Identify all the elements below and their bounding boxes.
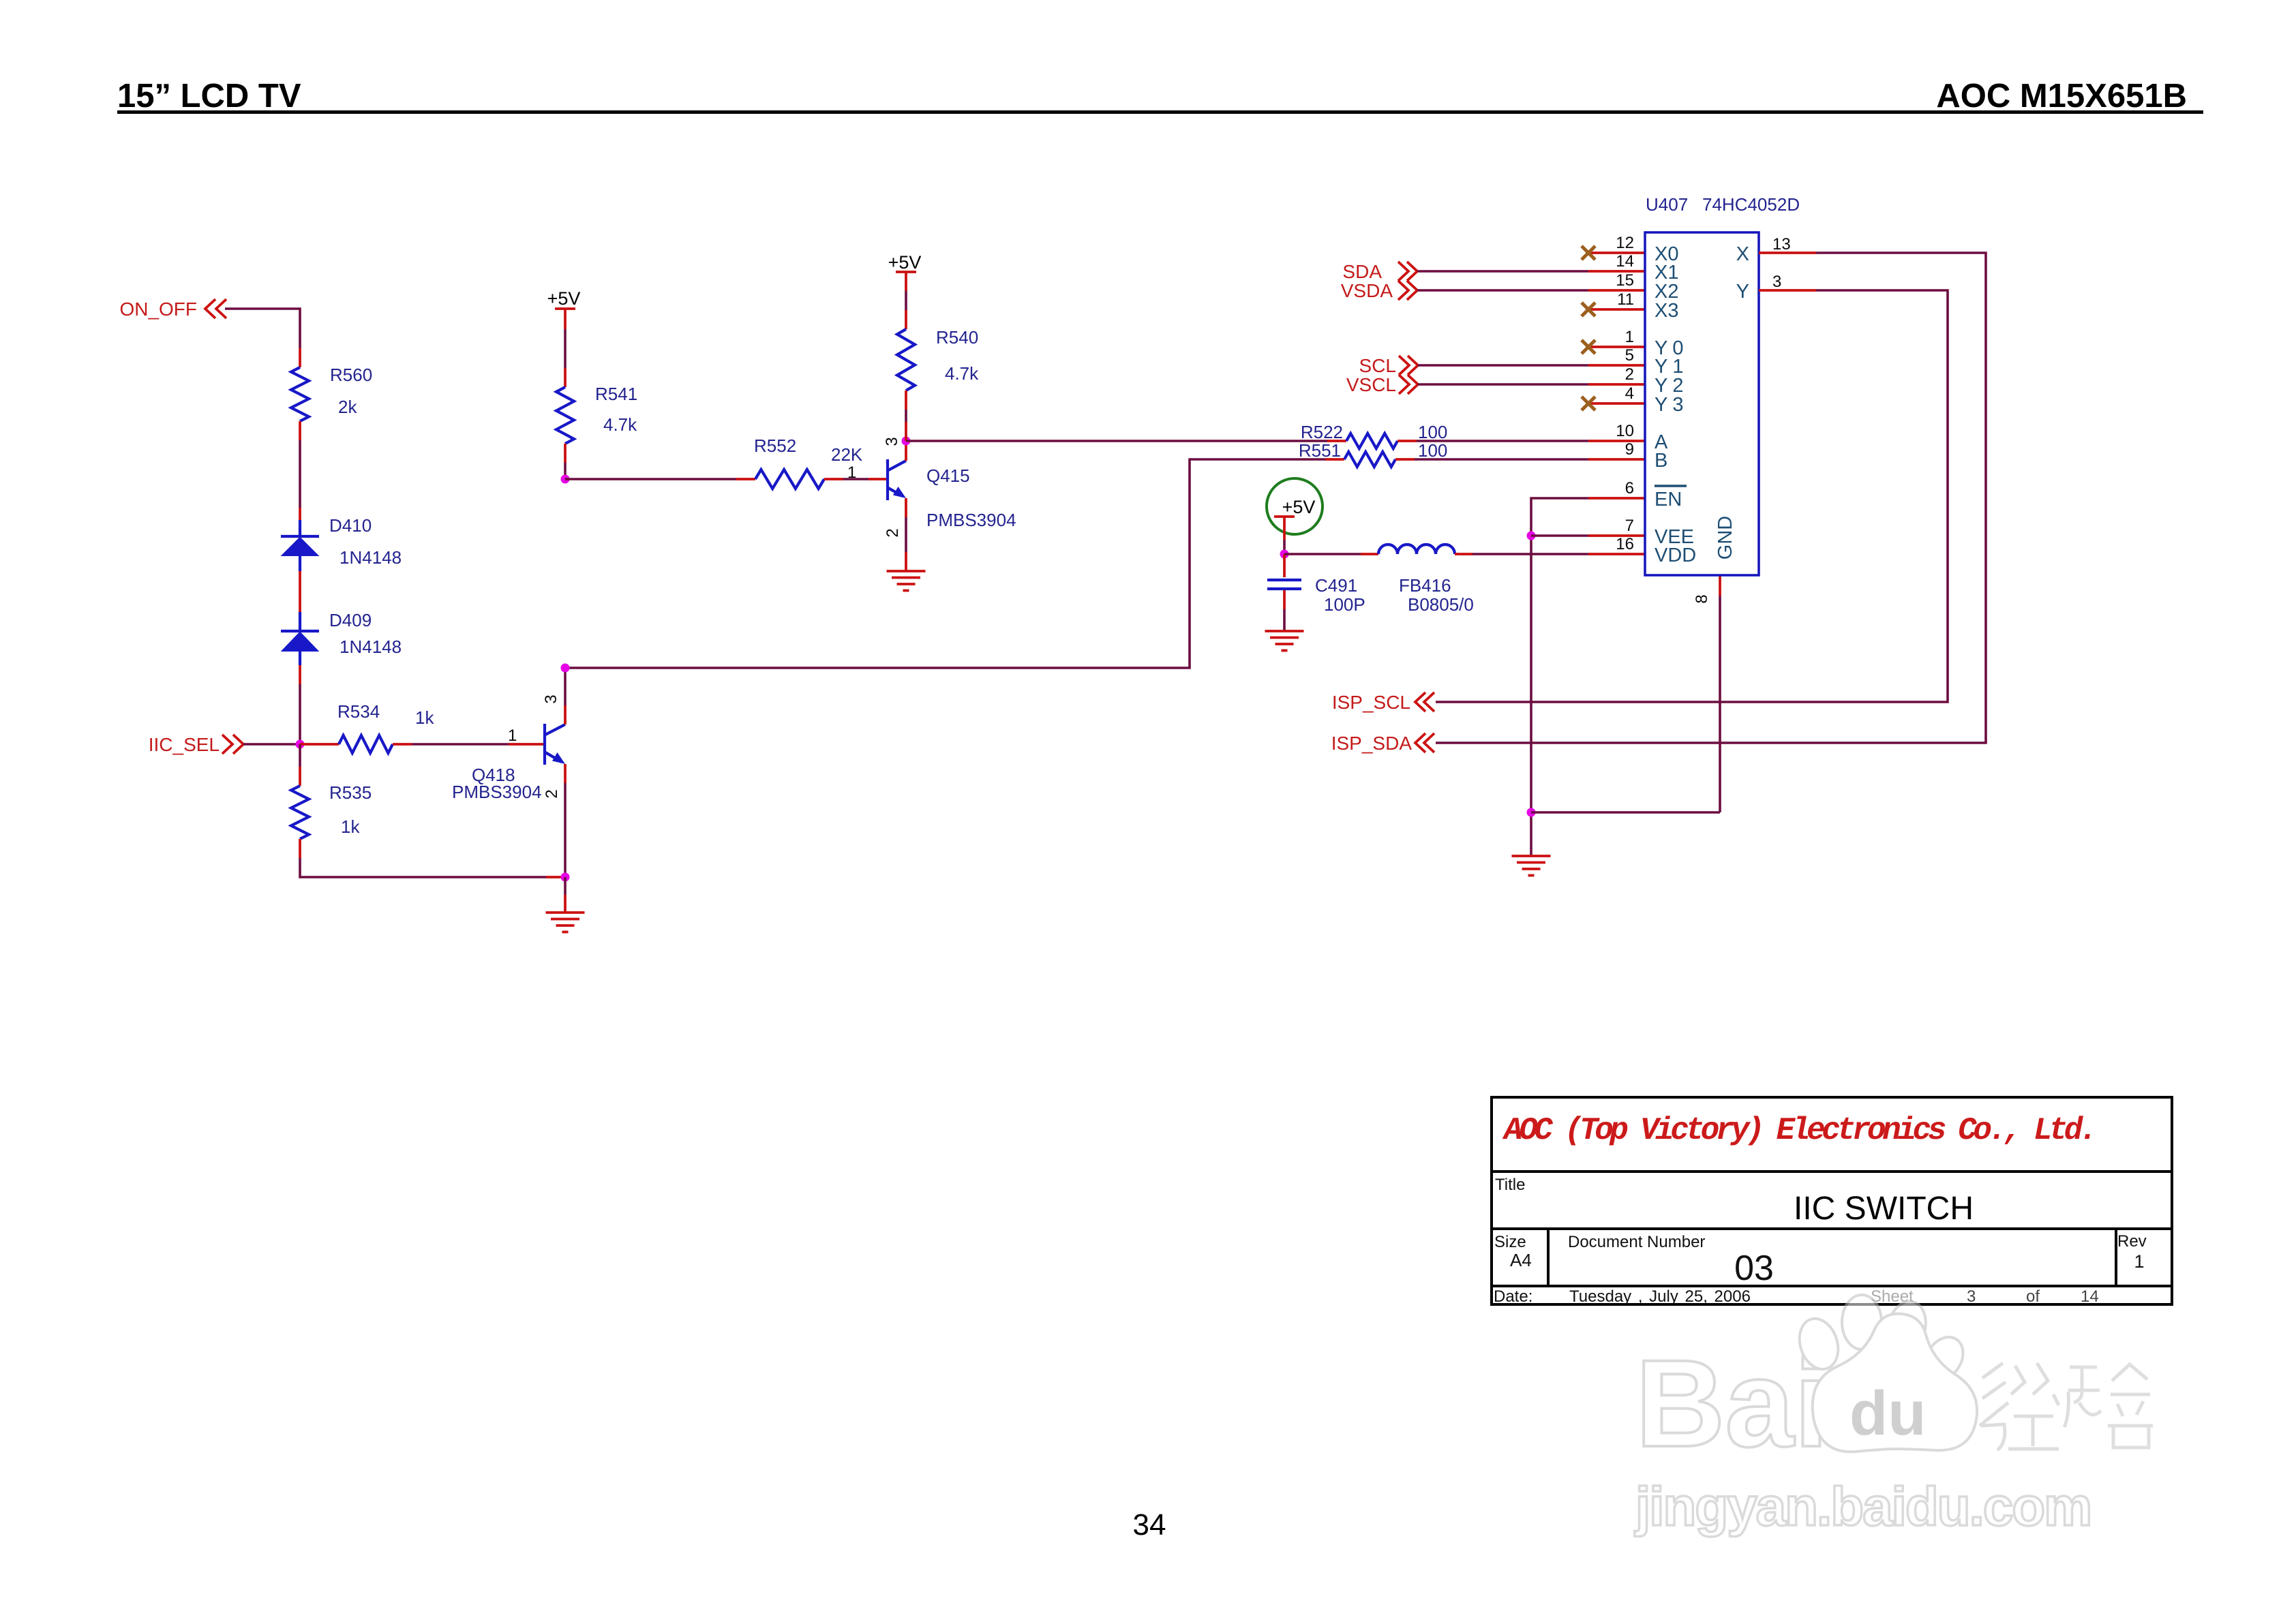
U407 pin 14 X1 <box>1616 252 1678 284</box>
svg-text:VDD: VDD <box>1655 545 1696 566</box>
node Q418 emitter junction <box>561 873 570 882</box>
resistor R540 4.7k <box>897 327 979 391</box>
resistor R535 1k <box>291 782 372 839</box>
svg-text:Tuesday , July 25, 2006: Tuesday , July 25, 2006 <box>1569 1287 1751 1306</box>
wire R540 to collector node <box>905 391 907 441</box>
svg-text:ISP_SCL: ISP_SCL <box>1332 692 1410 713</box>
wire GND pin 8 <box>1531 575 1720 812</box>
svg-text:U407: U407 <box>1646 194 1688 215</box>
wire R552 to Q415 base <box>824 478 886 480</box>
U407 pin 4 Y3 <box>1625 384 1689 416</box>
net label ON_OFF <box>119 299 226 320</box>
svg-text:FB416: FB416 <box>1399 575 1451 596</box>
wire D410 to D409 <box>299 571 301 612</box>
node R541 bottom junction <box>561 475 570 484</box>
svg-text:EN: EN <box>1655 489 1682 510</box>
svg-text:R541: R541 <box>595 384 637 404</box>
svg-text:Rev: Rev <box>2117 1232 2147 1251</box>
wire junction to R552 <box>565 478 755 480</box>
svg-text:2k: 2k <box>338 397 357 417</box>
svg-text:Bai: Bai <box>1635 1334 1828 1473</box>
no-connect X pin 1 <box>1582 340 1645 354</box>
net label VSDA <box>1341 280 1417 301</box>
svg-text:5: 5 <box>1625 346 1634 365</box>
wire VEE <box>1531 534 1645 537</box>
svg-text:D409: D409 <box>329 610 372 630</box>
net label ISP_SCL <box>1332 692 1434 713</box>
svg-text:B0805/0: B0805/0 <box>1408 594 1474 615</box>
wire Q415 emitter to ground <box>905 498 907 571</box>
wire +5V circle to VDD node <box>1283 540 1286 554</box>
header underline <box>117 110 2203 114</box>
U407 pin 12 X0 <box>1616 234 1678 265</box>
svg-text:1k: 1k <box>341 816 360 837</box>
no-connect X pin 11 <box>1582 303 1645 316</box>
svg-text:2: 2 <box>883 528 902 537</box>
svg-text:74HC4052D: 74HC4052D <box>1702 194 1800 215</box>
svg-text:1: 1 <box>847 463 856 482</box>
wire collector node to R522 <box>906 440 1346 442</box>
svg-text:100: 100 <box>1418 422 1447 442</box>
svg-text:SCL: SCL <box>1359 355 1396 376</box>
ground (EN/VEE rail) <box>1512 855 1551 857</box>
svg-text:3: 3 <box>883 437 901 446</box>
power +5V (above R541) <box>547 288 581 329</box>
U407 pin 13 X output <box>1736 235 1816 265</box>
svg-text:A4: A4 <box>1510 1250 1532 1270</box>
wire R534 to Q418 base <box>393 743 543 746</box>
svg-text:1N4148: 1N4148 <box>339 547 402 568</box>
svg-text:22K: 22K <box>831 444 863 465</box>
U407 pin 9 B <box>1625 440 1668 472</box>
svg-text:15: 15 <box>1616 271 1634 290</box>
resistor R541 4.7k <box>556 384 637 444</box>
svg-text:R551: R551 <box>1299 440 1341 461</box>
svg-text:VSDA: VSDA <box>1341 280 1393 301</box>
node VEE junction <box>1527 532 1536 540</box>
U407 pin 6 EN <box>1625 479 1687 510</box>
svg-text:of: of <box>2026 1287 2040 1306</box>
svg-text:4.7k: 4.7k <box>945 363 979 384</box>
transistor Q418 PMBS3904 <box>452 724 565 802</box>
svg-text:3: 3 <box>1967 1287 1976 1306</box>
wire D409 to IIC_SEL node <box>299 665 301 744</box>
power +5V circle <box>1267 478 1323 540</box>
svg-text:R535: R535 <box>329 782 372 803</box>
svg-text:2: 2 <box>543 789 561 798</box>
op-amp/mux U407 74HC4052D body <box>1645 194 1800 575</box>
svg-text:15” LCD TV: 15” LCD TV <box>117 78 301 114</box>
svg-text:Y3: Y3 <box>1655 394 1688 416</box>
wire Q418 collector up <box>564 668 567 724</box>
U407 pin 16 VDD <box>1616 535 1696 566</box>
svg-text:1k: 1k <box>415 707 434 728</box>
net label SCL <box>1359 355 1418 376</box>
ground (Q415 emitter) <box>887 570 926 572</box>
svg-text:Y: Y <box>1736 281 1749 303</box>
wire EN corner down rail <box>1531 498 1645 856</box>
resistor R560 <box>291 365 372 421</box>
svg-text:R560: R560 <box>330 365 372 385</box>
svg-text:VSCL: VSCL <box>1346 374 1396 395</box>
svg-text:R534: R534 <box>337 701 380 722</box>
node R541 lower junction <box>561 664 570 673</box>
svg-text:3: 3 <box>1772 273 1781 291</box>
wire R560 to D410 <box>299 421 301 520</box>
no-connect X pin 12 <box>1582 246 1645 260</box>
svg-text:Title: Title <box>1495 1176 1525 1194</box>
ground (C491) <box>1265 630 1304 632</box>
wire Q418 emitter down <box>564 764 567 877</box>
svg-text:jingyan.baidu.com: jingyan.baidu.com <box>1634 1476 2091 1537</box>
svg-text:2: 2 <box>1625 365 1634 384</box>
svg-text:14: 14 <box>2081 1287 2099 1306</box>
U407 pin 3 Y output <box>1736 273 1816 303</box>
svg-text:Date:: Date: <box>1494 1287 1532 1306</box>
wire C491 to ground <box>1283 590 1286 631</box>
U407 pin 11 X3 <box>1617 290 1678 322</box>
svg-text:14: 14 <box>1616 252 1634 271</box>
power +5V (above R540) <box>888 252 922 291</box>
node Q415 collector junction <box>902 437 911 446</box>
svg-text:X3: X3 <box>1655 300 1678 322</box>
wire node to C491 <box>1283 554 1286 577</box>
svg-text:IIC SWITCH: IIC SWITCH <box>1794 1191 1974 1227</box>
wire junction to ground <box>564 877 567 913</box>
svg-text:+5V: +5V <box>888 252 922 273</box>
svg-text:ON_OFF: ON_OFF <box>119 299 197 320</box>
wire node to R534 <box>300 743 339 746</box>
wire SCL to Y1 <box>1418 364 1645 367</box>
svg-text:3: 3 <box>542 694 560 703</box>
wire FB416 to pin VDD <box>1455 553 1645 555</box>
wire Q415 collector up <box>905 441 907 461</box>
svg-text:03: 03 <box>1734 1249 1774 1288</box>
svg-text:IIC_SEL: IIC_SEL <box>149 734 220 755</box>
svg-text:D410: D410 <box>329 515 372 536</box>
svg-text:1: 1 <box>1625 328 1634 346</box>
svg-text:1: 1 <box>2134 1251 2144 1272</box>
svg-text:AOC (Top Victory) Electronics: AOC (Top Victory) Electronics Co., Ltd. <box>1502 1113 2094 1148</box>
wire R522 to pin A <box>1398 440 1645 442</box>
U407 pin 15 X2 <box>1616 271 1678 303</box>
no-connect X pin 4 <box>1582 397 1645 410</box>
svg-text:9: 9 <box>1625 440 1634 459</box>
svg-text:SDA: SDA <box>1342 261 1382 282</box>
net label SDA <box>1342 261 1417 282</box>
svg-text:34: 34 <box>1133 1508 1166 1542</box>
svg-text:Document Number: Document Number <box>1568 1233 1705 1251</box>
svg-text:C491: C491 <box>1315 575 1357 596</box>
svg-text:Q415: Q415 <box>926 465 970 486</box>
wire ON_OFF to R560 <box>225 309 300 367</box>
wire VSCL to Y2 <box>1418 383 1645 386</box>
U407 pin 10 A <box>1616 422 1668 453</box>
svg-text:+5V: +5V <box>547 288 581 309</box>
svg-text:12: 12 <box>1616 234 1634 252</box>
diode D409 1N4148 <box>281 610 402 665</box>
svg-text:100: 100 <box>1418 440 1447 461</box>
svg-text:Size: Size <box>1494 1233 1526 1251</box>
svg-text:1N4148: 1N4148 <box>339 637 402 657</box>
svg-text:PMBS3904: PMBS3904 <box>926 510 1016 530</box>
title block frame <box>1492 1097 2172 1304</box>
svg-text:B: B <box>1655 450 1667 472</box>
resistor R522 100 <box>1301 422 1448 448</box>
svg-text:4: 4 <box>1625 384 1634 403</box>
resistor R534 1k <box>337 701 434 753</box>
resistor R552 22K <box>754 435 863 489</box>
U407 pin 2 Y2 <box>1625 365 1689 397</box>
svg-text:du: du <box>1849 1379 1926 1448</box>
U407 pin 1 Y0 <box>1625 328 1689 359</box>
wire R541 to junction <box>564 444 567 479</box>
watermark baidu jingyan <box>1634 1295 2153 1537</box>
svg-text:PMBS3904: PMBS3904 <box>452 782 542 802</box>
wire +5V to R540 <box>905 291 907 329</box>
inductor FB416 B0805/0 <box>1378 545 1474 615</box>
resistor R551 100 <box>1299 440 1448 467</box>
svg-text:AOC M15X651B: AOC M15X651B <box>1936 78 2187 114</box>
svg-text:10: 10 <box>1616 422 1634 440</box>
net label VSCL <box>1346 374 1418 395</box>
svg-text:100P: 100P <box>1324 594 1365 615</box>
node IIC_SEL junction <box>296 740 305 749</box>
date row <box>1494 1287 2099 1306</box>
wire R551 to pin B <box>1395 458 1645 461</box>
wire +5V to R541 <box>564 329 567 387</box>
svg-text:R540: R540 <box>936 327 978 348</box>
svg-text:11: 11 <box>1617 290 1634 309</box>
U407 pin 5 Y1 <box>1625 346 1689 378</box>
ground (Q418 emitter) <box>546 911 585 914</box>
svg-text:+5V: +5V <box>1282 497 1316 517</box>
svg-text:R552: R552 <box>754 435 796 456</box>
svg-text:R522: R522 <box>1301 422 1343 442</box>
svg-text:4.7k: 4.7k <box>603 414 637 435</box>
wire IIC_SEL to node <box>243 743 300 746</box>
svg-text:13: 13 <box>1772 235 1791 254</box>
wire node down to R535 <box>299 744 301 786</box>
wire X pin13 loop to ISP_SDA <box>1436 253 1986 743</box>
wire emitter rail to R551 <box>565 459 1344 668</box>
net label IIC_SEL <box>149 734 243 755</box>
net label ISP_SDA <box>1331 733 1434 754</box>
wire SDA to X1 <box>1417 270 1645 273</box>
svg-text:6: 6 <box>1625 479 1634 498</box>
wire R535 to emitter rail <box>300 839 565 877</box>
U407 pin 7 VEE <box>1625 517 1694 548</box>
svg-text:ISP_SDA: ISP_SDA <box>1331 733 1413 754</box>
transistor Q415 PMBS3904 <box>888 459 1016 530</box>
svg-text:GND: GND <box>1715 516 1736 560</box>
svg-text:X: X <box>1736 243 1749 265</box>
node GND rail junction <box>1527 808 1536 817</box>
diode D410 1N4148 <box>281 515 402 571</box>
node VDD junction <box>1280 550 1289 559</box>
svg-text:8: 8 <box>1693 594 1711 603</box>
wire node to FB416 <box>1284 553 1378 555</box>
wire VSDA to X2 <box>1417 289 1645 292</box>
wire Y pin3 loop to ISP_SCL <box>1436 290 1948 702</box>
svg-text:7: 7 <box>1625 517 1634 535</box>
svg-text:1: 1 <box>508 726 517 745</box>
capacitor C491 100P <box>1267 575 1365 615</box>
svg-text:16: 16 <box>1616 535 1634 553</box>
